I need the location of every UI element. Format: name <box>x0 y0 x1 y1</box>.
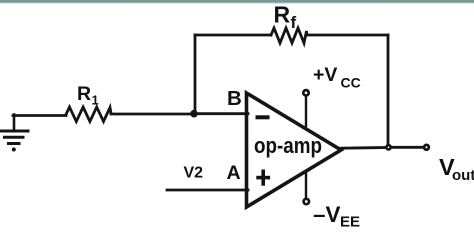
svg-text:R: R <box>274 2 291 28</box>
svg-text:B: B <box>227 87 242 110</box>
wire VCC stub <box>305 97 307 126</box>
svg-text:out: out <box>452 167 474 184</box>
node junction <box>190 110 198 118</box>
wire feedback vertical left <box>194 35 197 113</box>
svg-text:V2: V2 <box>184 165 204 182</box>
minus sign (inverting input marker) <box>256 115 270 119</box>
wire junction to output terminal <box>392 146 423 149</box>
resistor R1 <box>66 107 111 122</box>
op-amp U1 <box>247 93 342 207</box>
svg-text:1: 1 <box>92 93 99 108</box>
wire op-amp output to junction <box>341 146 385 149</box>
svg-text:A: A <box>227 162 241 184</box>
wire node to inverting input B <box>194 112 248 115</box>
terminal -VEE <box>304 199 309 204</box>
label Rf <box>274 2 297 33</box>
wire R1 to node <box>111 113 192 116</box>
terminal +VCC <box>303 90 308 95</box>
wire A input <box>167 189 248 192</box>
svg-text:f: f <box>291 13 297 32</box>
svg-text:op-amp: op-amp <box>254 133 322 158</box>
label R1 <box>77 83 99 108</box>
wire feedback top left <box>195 34 271 37</box>
plus sign (non-inverting input marker) <box>256 170 270 186</box>
wire VEE stub <box>305 171 307 198</box>
ground <box>0 115 28 152</box>
svg-text:EE: EE <box>340 214 360 231</box>
terminal Vout <box>424 145 429 150</box>
label -VEE <box>313 202 360 231</box>
label +VCC <box>313 64 361 91</box>
label Vout <box>439 154 474 184</box>
wire feedback vertical right <box>387 35 390 144</box>
wire ground to R1 <box>13 114 66 117</box>
node output junction <box>386 145 390 149</box>
resistor Rf <box>271 28 307 43</box>
svg-text:CC: CC <box>341 75 361 91</box>
svg-text:+V: +V <box>313 64 337 86</box>
wire Rf to right corner <box>306 34 388 37</box>
svg-text:–V: –V <box>313 202 341 227</box>
svg-text:R: R <box>77 83 91 105</box>
